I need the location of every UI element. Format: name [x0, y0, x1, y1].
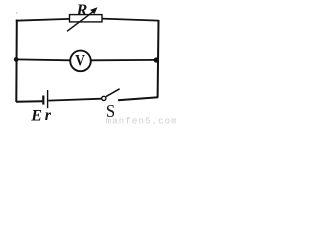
switch S pivot circle	[102, 96, 106, 100]
svg-text:R: R	[76, 2, 88, 19]
wire: right vertical side	[157, 20, 160, 98]
resistor R (rheostat box)	[70, 15, 103, 22]
wire: top-right segment	[102, 19, 159, 21]
wire: middle-right segment	[91, 59, 157, 61]
svg-text:E: E	[30, 107, 42, 124]
node: right junction dot	[154, 57, 159, 62]
switch S lever	[106, 89, 120, 97]
wire: middle-left segment	[16, 58, 70, 61]
wire: bottom-left segment	[16, 100, 42, 103]
wire: left vertical side	[15, 20, 18, 103]
scan speck	[16, 12, 18, 14]
wire: top-left segment	[16, 19, 70, 21]
svg-text:r: r	[45, 107, 52, 124]
battery: long thin plate	[47, 90, 49, 108]
svg-text:V: V	[75, 53, 85, 70]
wire: battery to switch segment	[48, 99, 101, 101]
node: left junction dot	[14, 57, 19, 62]
svg-text:manfen5.com: manfen5.com	[106, 116, 176, 127]
battery: short thick plate	[42, 96, 44, 105]
voltmeter V (circle)	[70, 51, 91, 72]
rheostat arrow	[67, 7, 98, 31]
wire: bottom-right segment	[118, 97, 158, 100]
